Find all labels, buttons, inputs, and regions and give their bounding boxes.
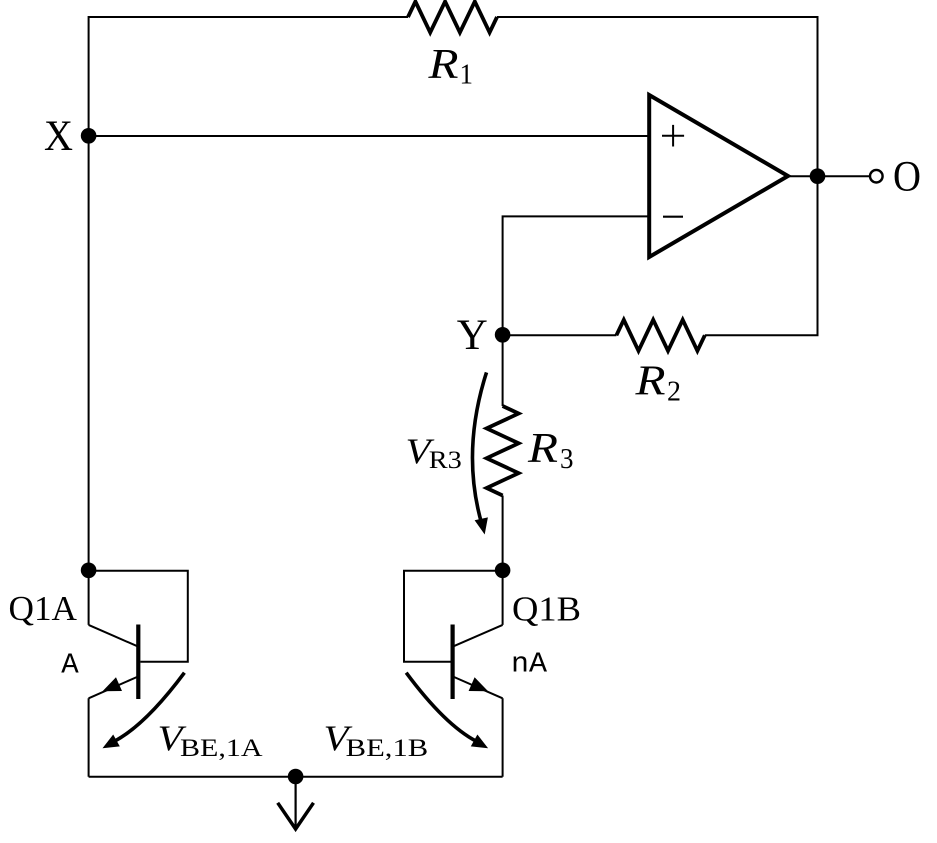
voltage arrow V_BE,1B arc — [406, 673, 477, 742]
svg-text:A: A — [61, 649, 79, 682]
ground stem — [295, 777, 297, 829]
wire Q1A emitter to rail — [88, 698, 90, 776]
svg-text:R3: R3 — [429, 447, 462, 474]
svg-text:X: X — [44, 113, 73, 160]
output terminal open circle — [870, 170, 883, 183]
wire Q1B emitter to rail — [502, 698, 504, 776]
V_BE,1B arrowhead — [471, 735, 488, 749]
node X junction dot — [81, 128, 97, 144]
ground arrowhead chevron — [278, 803, 314, 829]
op-amp output junction dot — [810, 168, 826, 184]
svg-text:BE,1A: BE,1A — [180, 735, 263, 762]
V_BE,1A arrowhead — [103, 735, 120, 749]
wire R3 to Q1B collector — [502, 496, 504, 625]
Q1B collector junction dot — [495, 563, 511, 579]
op-amp + pin mark — [662, 125, 684, 147]
op-amp U1 — [649, 95, 788, 257]
voltage arrow V_R3 arc — [472, 372, 486, 524]
wire Q1A collector-base tie loop — [89, 571, 188, 662]
svg-text:R: R — [427, 42, 458, 88]
node Y junction dot — [495, 327, 511, 343]
wire top-right (R1 to right rail) — [497, 17, 818, 176]
transistor Q1A collector stroke — [89, 625, 137, 646]
wire Q1B collector-base tie loop — [404, 571, 503, 662]
svg-text:BE,1B: BE,1B — [346, 735, 429, 762]
svg-text:2: 2 — [667, 376, 681, 408]
svg-text:R: R — [634, 359, 665, 405]
Q1B emitter arrowhead — [469, 677, 489, 691]
V_R3 arrowhead — [475, 517, 488, 534]
wire bottom emitter rail — [89, 776, 503, 778]
Q1A collector junction dot — [81, 563, 97, 579]
ground junction dot — [288, 769, 304, 785]
Q1A emitter arrowhead — [103, 677, 123, 691]
wire Y to R2 — [503, 334, 617, 336]
transistor Q1B collector stroke — [454, 625, 503, 646]
resistor R3 — [487, 406, 519, 496]
resistor R2 — [616, 320, 704, 351]
transistor Q1A emitter stroke — [89, 677, 137, 698]
svg-text:R: R — [527, 426, 558, 472]
svg-text:O: O — [893, 154, 921, 201]
wire output to terminal O — [818, 175, 871, 177]
voltage arrow V_BE,1A arc — [114, 673, 184, 742]
svg-text:Y: Y — [457, 312, 488, 359]
wire op-amp output — [788, 175, 818, 177]
transistor Q1B base bar — [451, 625, 455, 700]
svg-text:nA: nA — [511, 648, 548, 681]
transistor Q1A base bar — [136, 625, 140, 700]
wire Y to R3 — [502, 335, 504, 406]
wire left rail (X down to Q1A collector) — [88, 136, 90, 625]
svg-text:1: 1 — [460, 59, 474, 91]
svg-text:Q1A: Q1A — [9, 589, 78, 628]
wire right rail (output down to R2) — [705, 176, 818, 335]
op-amp - pin mark — [663, 216, 683, 218]
wire op-amp - input — [503, 216, 650, 335]
wire X to op-amp + input — [89, 135, 650, 137]
svg-text:3: 3 — [560, 443, 574, 475]
resistor R1 — [408, 2, 497, 33]
svg-text:Q1B: Q1B — [512, 590, 581, 629]
wire top-left (X to R1) — [89, 17, 408, 136]
transistor Q1B emitter stroke — [454, 677, 503, 698]
